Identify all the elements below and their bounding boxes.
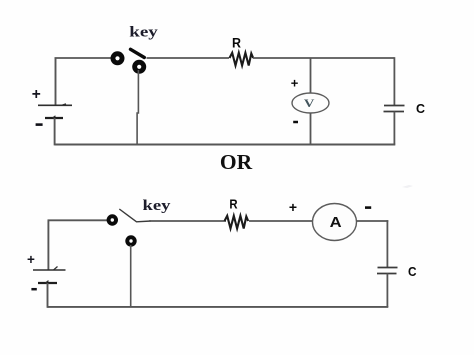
key K1 open switch arm bbox=[131, 49, 145, 57]
label - (ammeter polarity) bbox=[365, 206, 371, 209]
svg-text:R: R bbox=[229, 197, 238, 212]
wire voltmeter branch lower bbox=[310, 113, 312, 145]
svg-text:C: C bbox=[416, 101, 426, 116]
svg-text:A: A bbox=[330, 215, 343, 231]
wire battery branch lower (bottom circuit) bbox=[47, 283, 49, 308]
wire right side vertical lower (bottom circuit) bbox=[386, 274, 388, 308]
svg-text:+: + bbox=[32, 86, 41, 103]
svg-text:+: + bbox=[289, 199, 297, 215]
resistor R1 zigzag bbox=[230, 53, 254, 66]
key K2 open switch arm bbox=[119, 209, 151, 222]
svg-text:OR: OR bbox=[220, 150, 253, 174]
wire top middle (key to resistor, bottom circuit) bbox=[149, 220, 226, 222]
wire (ammeter to right corner) bbox=[357, 220, 389, 222]
key K1 terminal dot 1 bbox=[111, 51, 125, 65]
svg-text:+: + bbox=[27, 252, 35, 267]
svg-text:C: C bbox=[408, 264, 417, 279]
key K2 terminal dot 1 bbox=[107, 214, 118, 225]
wire right side vertical lower bbox=[393, 112, 395, 145]
wire top right (resistor to right corner) bbox=[253, 57, 394, 59]
ammeter A1 body bbox=[313, 204, 357, 241]
wire battery branch upper bbox=[55, 58, 57, 105]
wire battery branch lower bbox=[54, 118, 56, 145]
wire bottom rail (bottom circuit) bbox=[48, 306, 389, 308]
resistor R2 zigzag bbox=[225, 216, 249, 229]
wire top-left horizontal (battery to key) bbox=[55, 57, 112, 59]
label - (voltmeter polarity) bbox=[293, 121, 298, 124]
svg-text:+: + bbox=[291, 76, 299, 91]
svg-text:key: key bbox=[143, 198, 172, 214]
capacitor C2 plates bbox=[377, 268, 398, 274]
voltmeter V1 body bbox=[292, 93, 329, 113]
wire key terminal 2 down to bottom rail bbox=[137, 70, 138, 145]
wire right side vertical upper (bottom circuit) bbox=[386, 220, 388, 267]
capacitor C1 plates bbox=[384, 106, 405, 112]
wire key terminal 2 down to bottom rail (bottom circuit) bbox=[130, 245, 132, 307]
wire bottom (top circuit) bbox=[55, 144, 396, 146]
wire right side vertical upper bbox=[393, 57, 395, 105]
key K1 terminal dot 2 bbox=[132, 60, 146, 74]
wire voltmeter branch upper bbox=[310, 58, 312, 94]
wire (resistor to ammeter) bbox=[249, 220, 313, 222]
faint background smudge bbox=[402, 185, 413, 188]
battery B2 plates bbox=[33, 267, 66, 284]
battery B1 plates bbox=[38, 104, 72, 118]
svg-text:key: key bbox=[129, 24, 158, 40]
svg-text:V: V bbox=[304, 96, 315, 110]
label - (battery B2) bbox=[31, 288, 36, 291]
wire top-left horizontal (battery to key, bottom circuit) bbox=[48, 219, 108, 221]
key K2 terminal dot 2 bbox=[125, 235, 136, 246]
wire battery branch upper (bottom circuit) bbox=[47, 220, 49, 270]
wire top middle (key to resistor) bbox=[147, 57, 230, 59]
svg-text:R: R bbox=[232, 35, 241, 50]
label - (battery B1) bbox=[36, 123, 43, 126]
